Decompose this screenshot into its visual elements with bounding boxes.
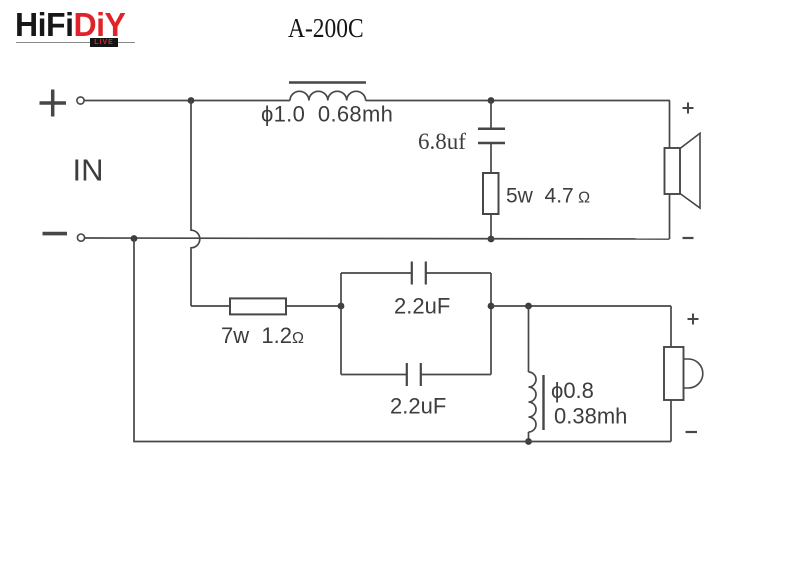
wire: C1 branch upper lead — [490, 101, 492, 129]
wire: capacitor loop top side with C2 gap — [341, 272, 491, 274]
capacitor C3 2.2uF plates — [407, 363, 421, 386]
svg-text:2.2uF: 2.2uF — [394, 294, 450, 319]
tweeter plus polarity mark — [688, 314, 699, 325]
wire: bottom rail — [134, 239, 671, 442]
inductor L2 0.38mh humps — [529, 372, 537, 432]
svg-text:ϕ1.0 0.68mh: ϕ1.0 0.68mh — [261, 102, 393, 127]
tweeter minus polarity mark — [686, 431, 698, 433]
svg-text:0.38mh: 0.38mh — [554, 404, 627, 429]
svg-text:ϕ0.8: ϕ0.8 — [551, 378, 594, 403]
node: junction at capacitor loop right — [488, 303, 495, 310]
node: junction L2 to bottom rail — [525, 438, 532, 445]
wire: plus terminal to inductor L1 — [84, 100, 290, 102]
wire: capacitor loop right side — [490, 273, 492, 375]
wire: woofer bottom to minus rail — [669, 194, 671, 239]
wire: L2 upper lead — [528, 306, 530, 372]
svg-text:IN: IN — [73, 153, 104, 188]
wire: tweeter bottom lead — [670, 400, 672, 442]
node: junction at capacitor loop left — [338, 303, 345, 310]
node: junction top wire to C1 branch — [488, 97, 495, 104]
svg-text:6.8uf: 6.8uf — [418, 129, 466, 154]
node: junction minus rail to bottom rail — [131, 235, 138, 242]
wire: capacitor loop to tweeter corner — [491, 305, 671, 307]
woofer plus polarity mark — [683, 103, 694, 114]
woofer SP1 cone — [680, 133, 700, 208]
woofer minus polarity mark — [683, 237, 694, 239]
inductor L1 core bar — [289, 81, 366, 84]
node: junction top wire to lower network — [188, 97, 195, 104]
wire: tweeter top lead — [670, 306, 672, 347]
node: junction to inductor L2 branch — [525, 303, 532, 310]
wire: top-right corner down to woofer — [669, 101, 671, 149]
wire: capacitor loop bottom side with C3 gap — [341, 374, 491, 376]
woofer SP1 magnet body — [665, 148, 681, 194]
minus terminal circle — [77, 234, 84, 241]
wire: C1 to R1 — [490, 143, 492, 173]
plus input terminal — [40, 90, 67, 117]
tweeter SP2 body — [664, 347, 684, 400]
svg-text:2.2uF: 2.2uF — [390, 394, 446, 419]
capacitor C2 2.2uF plates — [412, 262, 426, 285]
wire: corner to R2 — [191, 305, 230, 307]
wire: L2 lower lead — [528, 432, 530, 442]
minus input terminal — [43, 232, 68, 236]
wire: minus rail — [85, 238, 670, 239]
wire: R1 lower lead — [490, 214, 492, 239]
resistor R2 7w 1.2ohm body — [230, 298, 286, 314]
title A-200C — [288, 13, 364, 44]
wire: R2 to capacitor loop — [286, 305, 341, 307]
plus terminal circle — [77, 97, 84, 104]
inductor L2 core bar — [542, 375, 544, 430]
node: junction R1 to minus wire — [488, 236, 495, 243]
wire: vertical feed with hop over minus rail — [191, 101, 200, 307]
HIFIDIY logo — [15, 8, 140, 50]
svg-text:7w 1.2Ω: 7w 1.2Ω — [221, 323, 304, 348]
wire: capacitor loop left side — [340, 273, 342, 375]
inductor L1 0.68mh humps — [290, 91, 366, 100]
capacitor C1 6.8uf plates — [478, 129, 505, 143]
resistor R1 5w 4.7ohm body — [483, 173, 499, 214]
svg-text:5w 4.7 Ω: 5w 4.7 Ω — [506, 185, 590, 208]
wire: inductor L1 to top-right corner — [366, 100, 670, 102]
tweeter SP2 dome — [684, 359, 703, 388]
